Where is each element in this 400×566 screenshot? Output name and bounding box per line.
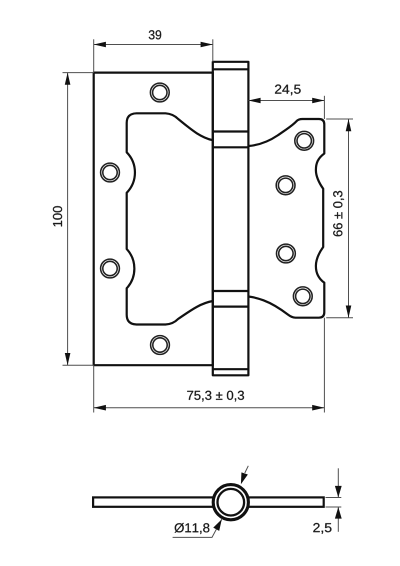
hole L3 [101, 259, 120, 278]
dim line 100 [67, 73, 69, 366]
left plate side view [93, 497, 216, 506]
arrow 66 top [346, 119, 352, 131]
label 75,3 plus-minus 0,3 [187, 391, 244, 402]
arrow 39 left [94, 42, 106, 48]
label 100 [53, 206, 62, 226]
ext line 75,3 right [323, 318, 325, 413]
ext line 100 top [63, 72, 94, 74]
label 39 [149, 30, 161, 39]
barrel top cap line [213, 68, 249, 70]
ext line 39 right [212, 39, 214, 62]
hole L4 [151, 336, 170, 355]
ext line 75,3 left [93, 365, 95, 412]
hole R3 [277, 244, 296, 263]
leader line top right [245, 466, 249, 473]
arrow 39 right [201, 42, 213, 48]
label diameter 11,8 [175, 523, 210, 534]
ext line 2,5 top [326, 497, 342, 499]
arrow 24,5 right [312, 98, 324, 104]
barrel knuckle joint line bottom1 [213, 290, 249, 292]
dimension and extension lines [63, 39, 354, 412]
arrow 2,5 bottom [335, 507, 342, 518]
screw holes [101, 83, 314, 354]
barrel knuckle joint line top2 [213, 146, 249, 148]
dim line 39 [94, 44, 213, 46]
left leaf plate outline [94, 73, 213, 366]
hole L2 [101, 163, 120, 182]
ext line 24,5 right [323, 96, 325, 119]
dim line 24,5 [248, 100, 324, 102]
arrow 100 bottom [65, 353, 71, 365]
label 66 plus-minus 0,3 [333, 191, 344, 236]
ext line 39 left [93, 39, 95, 72]
leader line diameter [173, 519, 222, 537]
ext line 100 bottom [63, 364, 94, 366]
arrow 2,5 top [335, 486, 342, 498]
dim line 2,5 upper [337, 468, 339, 497]
dim line 2,5 lower [337, 507, 339, 532]
ext line 66 bottom [326, 317, 353, 319]
barrel circle side view [213, 485, 248, 520]
right leaf outline [248, 119, 324, 318]
ext line 66 top [326, 118, 353, 120]
arrow 100 top [65, 73, 71, 85]
barrel knuckle column [213, 62, 249, 376]
barrel bottom cap line [213, 368, 249, 370]
barrel knuckle joint line top1 [213, 130, 249, 132]
dim line 75,3 [94, 407, 325, 409]
cutout pocket outline in left leaf [127, 113, 213, 324]
arrow 75,3 right [312, 405, 324, 411]
2,5 dimension lines [326, 468, 342, 532]
hole R4 [293, 287, 312, 306]
arrow 66 bottom [346, 306, 352, 318]
arrows main view [65, 42, 352, 411]
dimension texts [53, 30, 344, 401]
label 2,5 [313, 523, 331, 534]
barrel inner circle side view [218, 489, 245, 516]
barrel knuckle joint line bottom2 [213, 306, 249, 308]
right plate side view [245, 497, 324, 506]
hole R1 [295, 131, 314, 150]
hole L1 [150, 83, 169, 102]
label 24,5 [275, 85, 301, 96]
leader arrow top right [238, 472, 248, 485]
hole R2 [276, 176, 295, 195]
arrow 24,5 left [248, 98, 260, 104]
ext line 2,5 bottom [326, 506, 342, 508]
dim line 66 [348, 119, 350, 318]
arrow 75,3 left [94, 405, 106, 411]
leader arrow diameter [213, 518, 225, 531]
